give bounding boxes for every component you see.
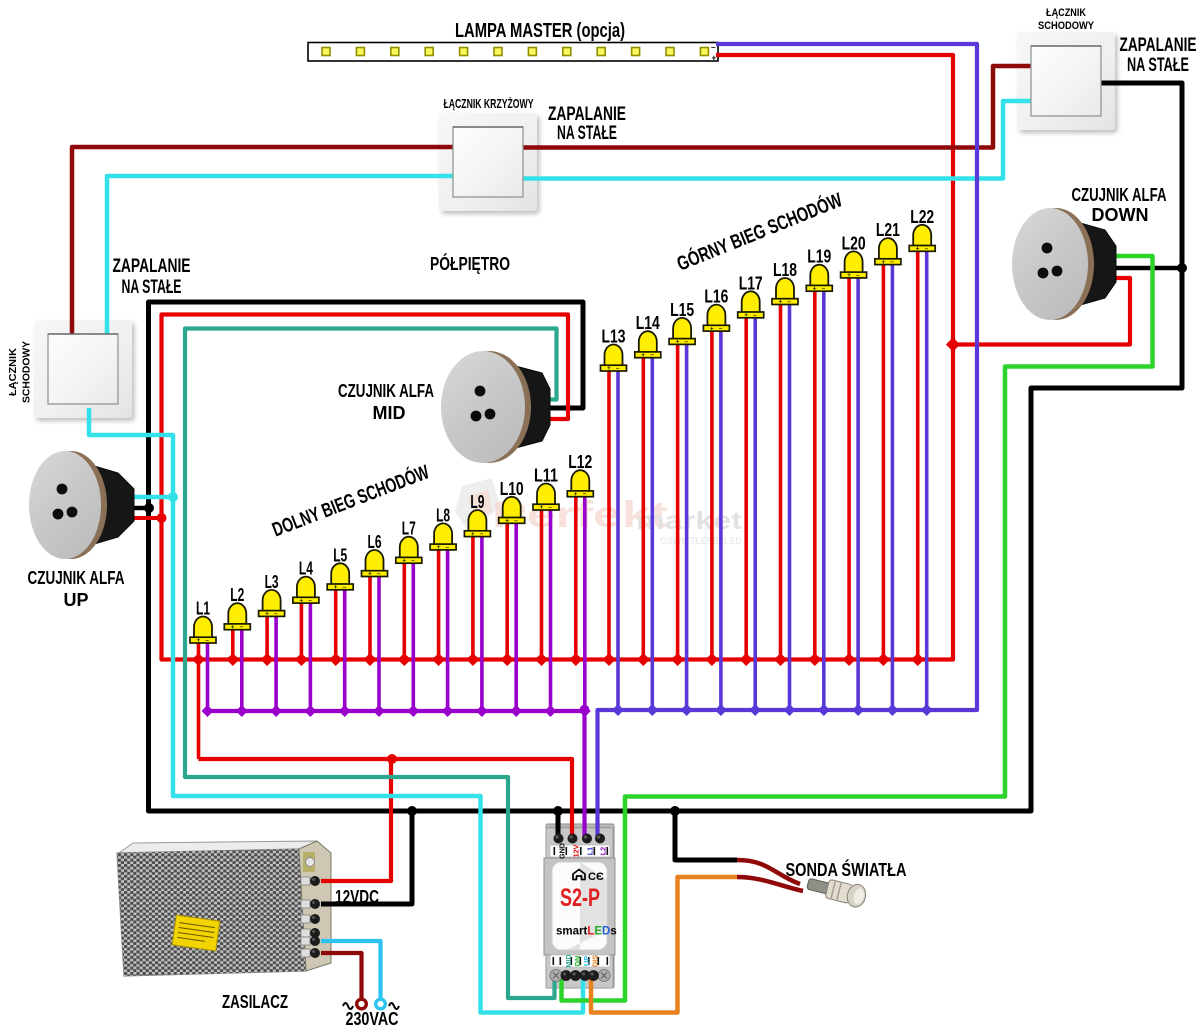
svg-text:–: – [650,352,654,359]
wire orange S2-P DIS - light probe [591,877,737,1013]
wire black pin DOWN sensor [1112,266,1182,271]
LED L11 [533,466,559,512]
wire red 12V loop (MID pin - left side - bottom bus - master +) [162,55,954,660]
svg-text:+: + [641,352,645,359]
LED L2 [224,585,250,631]
svg-text:L13: L13 [602,327,626,347]
svg-text:+: + [437,544,441,551]
wire violet master minus - L13-22 bus - S2-P L2 [598,44,978,840]
switch right LACZNIK SCHODOWY plate [1017,32,1115,130]
svg-text:+: + [710,325,714,332]
wire black main loop (switch right - sensors GND - bottom bus - left side - MID) [149,83,1183,811]
svg-text:+: + [881,259,885,266]
LED L8 [430,505,456,551]
svg-text:12VDC: 12VDC [335,887,379,907]
junction dots black [144,503,154,513]
svg-text:–: – [514,517,518,524]
wire green DOWN sensor - right side - S2-P DN input [562,256,1153,1001]
svg-text:+: + [471,531,475,538]
svg-text:–: – [583,491,587,498]
svg-text:DIS: DIS [591,955,600,967]
svg-text:ZASILACZ: ZASILACZ [222,992,288,1012]
left switch key [48,334,118,404]
wire cyan link krzyzowy to right switch [508,101,1045,179]
wire dark red link krzyzowy to right switch [508,66,1040,148]
svg-text:MID: MID [373,403,406,423]
svg-text:CZUJNIK ALFA: CZUJNIK ALFA [1072,185,1167,205]
light probe SONDA SWIATLA [737,860,800,884]
svg-text:L4: L4 [299,559,313,579]
wire dark red 230VAC L [321,953,362,998]
LED L1 [190,599,216,645]
svg-text:ZAPALANIE: ZAPALANIE [1120,35,1197,56]
svg-text:L21: L21 [876,220,900,240]
wire black to light probe [675,811,737,860]
junction dots violet bus [612,704,624,716]
svg-text:–: – [616,365,620,372]
svg-text:+: + [813,285,817,292]
svg-text:–: – [890,259,894,266]
svg-text:L18: L18 [773,260,797,280]
svg-text:CЄ: CЄ [588,871,604,883]
LED L3 [259,572,285,618]
svg-text:L14: L14 [636,313,660,333]
svg-text:MID: MID [564,954,573,967]
svg-text:ZAPALANIE: ZAPALANIE [113,256,191,277]
LED L12 [567,452,593,498]
svg-text:CZUJNIK ALFA: CZUJNIK ALFA [338,381,434,401]
svg-text:–: – [753,312,757,319]
wire red PSU 12VDC [321,759,391,881]
LED L13 [601,327,627,373]
wire red 12V feed to S2-P [199,759,573,840]
svg-text:12V: 12V [572,844,581,857]
sensor CZUJNIK ALFA MID [441,351,550,463]
svg-text:ŁĄCZNIK: ŁĄCZNIK [1046,7,1086,19]
svg-text:SCHODOWY: SCHODOWY [21,341,33,403]
svg-text:230VAC: 230VAC [346,1009,399,1028]
power supply ZASILACZ [117,841,331,976]
LED L17 [738,273,764,319]
svg-text:GND: GND [558,843,567,859]
svg-text:L9: L9 [470,492,484,512]
svg-text:NA STAŁE: NA STAŁE [557,123,617,144]
LED L18 [772,260,798,306]
wire red pin UP sensor [130,516,161,520]
svg-text:L11: L11 [534,466,558,486]
svg-text:–: – [719,325,723,332]
svg-text:+: + [744,312,748,319]
wire cyan pin UP sensor [130,495,173,500]
svg-text:+: + [607,365,611,372]
LED L5 [327,545,353,591]
svg-text:L1: L1 [196,599,210,619]
svg-text:–: – [787,299,791,306]
switch LACZNIK KRZYZOWY plate [439,113,537,211]
svg-text:L17: L17 [739,273,763,293]
svg-text:L19: L19 [807,247,831,267]
svg-text:OSWIETLENIE LED: OSWIETLENIE LED [660,536,742,547]
svg-text:L15: L15 [670,300,694,320]
svg-text:+: + [505,518,509,525]
svg-text:–: – [822,285,826,292]
230VAC terminals [357,999,367,1009]
svg-text:smartLEDs: smartLEDs [556,926,617,938]
svg-text:+: + [847,272,851,279]
svg-text:L3: L3 [265,572,279,592]
wire purple L1-12 bus - S2-P L1 [209,711,585,840]
LED cathode legs L1-L12 (purple) [206,639,210,711]
wire teal MID sensor - left side - S2-P MID input [185,329,557,999]
svg-text:+: + [368,571,372,578]
svg-text:–: – [274,610,278,617]
LED cathode legs L13-L22 (violet) [616,367,620,710]
svg-text:NA STAŁE: NA STAŁE [122,277,182,298]
svg-text:L10: L10 [500,479,524,499]
svg-text:ZAPALANIE: ZAPALANIE [548,104,626,125]
watermark [455,478,743,547]
svg-text:DOWN: DOWN [1092,205,1149,225]
LED anode legs L1-L12 (red) [197,639,201,759]
wire blue 230VAC N [321,941,381,998]
svg-text:+: + [540,504,544,511]
svg-text:PÓŁPIĘTRO: PÓŁPIĘTRO [430,253,510,274]
LED anode legs L13-L22 (red) [607,367,611,660]
switch KRZYZOWY key [453,127,523,197]
svg-text:L2: L2 [599,847,608,855]
LED L15 [669,300,695,346]
svg-text:+: + [402,557,406,564]
svg-text:L7: L7 [402,519,416,539]
svg-text:–: – [343,584,347,591]
LED L4 [293,559,319,605]
LED L6 [362,532,388,578]
svg-text:CZUJNIK ALFA: CZUJNIK ALFA [28,568,125,588]
svg-text:–: – [684,338,688,345]
svg-text:–: – [856,272,860,279]
svg-text:+: + [574,491,578,498]
svg-text:+: + [779,299,783,306]
svg-text:L8: L8 [436,505,450,525]
sensor CZUJNIK ALFA UP [29,451,134,559]
LED L10 [499,479,525,525]
svg-text:–: – [377,571,381,578]
svg-text:L12: L12 [568,452,592,472]
svg-text:–: – [411,557,415,564]
svg-text:L1: L1 [586,847,595,855]
wire black pin UP sensor [130,506,149,511]
wire black GND drop to S2-P [556,811,561,840]
S2-P logo texts [573,870,585,880]
right switch key [1031,46,1101,116]
svg-text:SONDA ŚWIATŁA: SONDA ŚWIATŁA [786,859,907,880]
svg-text:ŁĄCZNIK KRZYŻOWY: ŁĄCZNIK KRZYŻOWY [444,96,534,111]
svg-text:+: + [265,611,269,618]
wire dark red link krzyzowy to left switch [72,147,470,340]
svg-text:LAMPA MASTER (opcja): LAMPA MASTER (opcja) [455,20,625,42]
svg-text:L2: L2 [230,585,244,605]
LED L9 [464,492,490,538]
sensor CZUJNIK ALFA DOWN [1012,208,1116,320]
junction dots purple bus [202,705,214,717]
wire cyan link krzyzowy to left switch [107,176,470,340]
svg-text:S2-P: S2-P [560,884,600,912]
svg-text:SCHODOWY: SCHODOWY [1038,20,1095,32]
svg-text:–: – [205,637,209,644]
LED L19 [806,247,832,293]
svg-text:UP: UP [63,590,88,610]
svg-text:L5: L5 [333,545,347,565]
svg-text:–: – [925,245,929,252]
LED strip LAMPA MASTER [308,43,718,62]
svg-text:+: + [712,54,717,63]
svg-text:NA STAŁE: NA STAŁE [1127,55,1189,76]
LED L14 [635,313,661,359]
LED L20 [841,233,867,279]
controller S2-P body [544,824,615,988]
svg-text:L22: L22 [910,207,934,227]
svg-text:ŁĄCZNIK: ŁĄCZNIK [7,348,19,396]
S2-P terminal screws and labels [550,834,610,982]
svg-text:+: + [676,339,680,346]
svg-text:DN: DN [573,956,582,966]
svg-text:+: + [197,637,201,644]
svg-text:–: – [445,544,449,551]
svg-text:+: + [334,584,338,591]
svg-text:–: – [548,504,552,511]
switch left LACZNIK SCHODOWY plate [34,320,132,418]
svg-text:+: + [916,246,920,253]
junction dot cyan [168,492,178,502]
LED L16 [703,287,729,333]
svg-text:L6: L6 [368,532,382,552]
wire cyan left switch - UP sensor - S2-P UP input [89,408,583,1013]
LED L21 [875,220,901,266]
svg-text:–: – [308,597,312,604]
svg-text:–: – [480,531,484,538]
svg-text:–: – [711,43,716,52]
LED L22 [909,207,935,253]
wire red pin DOWN sensor [953,278,1130,345]
junction dots red bus [192,653,205,666]
svg-text:L20: L20 [842,233,866,253]
svg-text:+: + [231,624,235,631]
svg-text:–: – [240,624,244,631]
svg-text:+: + [299,597,303,604]
LED L7 [396,519,422,565]
svg-text:L16: L16 [704,287,728,307]
wire black PSU to bottom bus [321,811,412,904]
